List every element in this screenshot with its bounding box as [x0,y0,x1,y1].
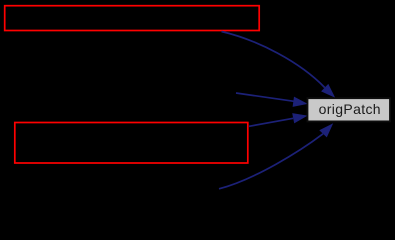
node box1 (red, top) [5,6,260,31]
arrowhead edge D [319,123,333,137]
wire edge A: box1 -> origPatch (top curve) [222,32,325,88]
wire edge B: hidden node -> origPatch (left upper) [236,93,294,101]
svg-text:origPatch: origPatch [319,101,381,117]
node origPatch (gray, current) [308,98,391,121]
node box2 (red, middle-left) [15,123,248,164]
arrowhead edge B [293,97,308,107]
arrowhead edge A [321,84,335,98]
wire edge C: box2 -> origPatch (left lower) [249,118,293,126]
wire edge D: hidden node -> origPatch (bottom curve) [219,134,323,189]
arrowhead edge C [292,113,307,123]
